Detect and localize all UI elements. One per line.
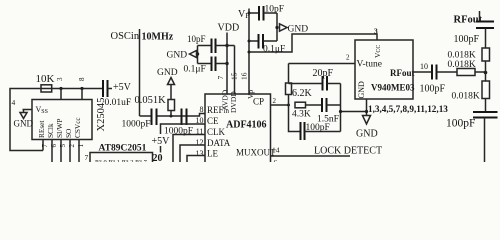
IC X25045 box (32, 100, 92, 140)
svg-text:7: 7 (41, 144, 49, 148)
node left GND tap (196, 52, 199, 55)
IC ADF4106 box (205, 94, 271, 162)
svg-text:SO: SO (64, 129, 73, 138)
svg-text:VDD: VDD (218, 23, 240, 34)
svg-text:6.2K: 6.2K (292, 88, 313, 99)
svg-text:0.01uF: 0.01uF (105, 98, 132, 108)
node CP junction (287, 104, 290, 107)
capacitor 100pF bottom (446, 112, 498, 162)
svg-text:6: 6 (50, 144, 58, 148)
svg-text:6: 6 (274, 158, 278, 162)
svg-text:2: 2 (346, 54, 350, 62)
resistor 6.2K (286, 64, 313, 106)
resistor 0.018K lower (452, 81, 490, 112)
capacitor 100pF loop (289, 105, 341, 140)
wire filter ground rail (341, 84, 367, 132)
wire pin8 stub (81, 89, 83, 100)
wire right GND tap (276, 13, 278, 41)
resistor 4.3K (292, 102, 322, 119)
svg-text:10MHz: 10MHz (142, 32, 174, 43)
svg-text:3: 3 (374, 27, 378, 36)
svg-text:CSVcc: CSVcc (73, 117, 82, 138)
svg-text:3: 3 (56, 77, 64, 81)
node Vp 0.1uF (248, 40, 251, 43)
svg-text:1000pF: 1000pF (122, 120, 151, 130)
svg-text:0.1μF: 0.1μF (263, 45, 285, 55)
svg-text:20: 20 (153, 153, 163, 162)
wire Vp to VCO Vcc (249, 34, 377, 52)
node pin3 X25045 (59, 87, 62, 90)
svg-text:2: 2 (68, 144, 76, 148)
svg-text:CLK: CLK (207, 127, 226, 137)
wire X25045 pin6 stub (51, 140, 53, 163)
wire left GND tap (197, 46, 199, 64)
svg-text:DVDD: DVDD (229, 91, 238, 113)
svg-text:13: 13 (196, 149, 204, 158)
svg-text:MUXOUT: MUXOUT (236, 148, 276, 158)
svg-text:10K: 10K (36, 73, 55, 85)
svg-text:14: 14 (272, 146, 280, 155)
resistor 0.018K series (448, 60, 486, 76)
svg-text:LOCK DETECT: LOCK DETECT (314, 146, 382, 157)
svg-text:2: 2 (273, 97, 277, 105)
svg-text:RFout: RFout (454, 15, 483, 26)
capacitor 10pF right (249, 5, 284, 21)
capacitor 100pF top (454, 11, 495, 48)
svg-text:10pF: 10pF (187, 34, 206, 44)
resistor 0.051K (135, 85, 175, 117)
svg-text:Vp: Vp (246, 90, 255, 99)
ground symbol left pair (167, 51, 197, 61)
wire X25045 pin1 stub (78, 140, 80, 163)
svg-text:8: 8 (200, 105, 204, 114)
wire LE (187, 156, 205, 163)
svg-text:LE: LE (207, 149, 218, 159)
wire DATA (180, 145, 205, 162)
svg-text:0.1μF: 0.1μF (184, 65, 206, 75)
svg-text:RFout: RFout (390, 68, 415, 78)
capacitor 100pF coupling (420, 65, 458, 95)
capacitor 20pF (289, 68, 341, 91)
node right GND tap (275, 26, 278, 29)
wire X25045 pin7 stub (42, 140, 44, 151)
svg-text:X25045: X25045 (96, 98, 107, 132)
wire CE to +5V (161, 124, 206, 134)
node pin8 X25045 (80, 87, 83, 90)
capacitor 1.5nF (317, 98, 341, 125)
svg-text:GND: GND (356, 129, 378, 140)
svg-text:+5V: +5V (113, 82, 132, 93)
wire pin3 stub (60, 89, 62, 100)
svg-text:GND: GND (14, 119, 34, 129)
svg-text:V940ME03: V940ME03 (371, 83, 415, 93)
node filter gnd left (339, 110, 342, 113)
svg-text:20pF: 20pF (313, 68, 334, 79)
IC AT89C2051 (85, 144, 163, 167)
wire V-tune (289, 63, 356, 65)
svg-text:SClk: SClk (46, 123, 55, 138)
svg-text:REset: REset (37, 121, 46, 138)
capacitor 0.01uF (103, 80, 131, 108)
wire X25045 pin2 stub (69, 140, 71, 163)
svg-text:1: 1 (77, 144, 85, 148)
svg-text:4: 4 (12, 98, 16, 107)
wire +5V to AT89C pin20 (160, 146, 162, 153)
wire ADF pin15 stub (234, 46, 236, 95)
svg-text:100pF: 100pF (420, 84, 446, 95)
ground symbol above 0.051K (157, 68, 178, 85)
wire REFin branch (140, 114, 206, 117)
node filter gnd right (365, 110, 368, 113)
ground symbol X25045 Vss (14, 110, 34, 129)
svg-text:5: 5 (59, 144, 67, 148)
svg-text:4.3K: 4.3K (292, 110, 311, 120)
svg-text:VP: VP (238, 9, 249, 20)
capacitor 10pF left (187, 34, 235, 53)
svg-text:100pF: 100pF (454, 34, 480, 45)
wire X25045 pin5 stub (60, 140, 62, 163)
node VDD 10pF (225, 44, 228, 47)
IC VCO V940ME03 box (355, 40, 413, 99)
node 0.051K junction (170, 115, 173, 118)
resistor 0.018K upper (448, 48, 490, 81)
capacitor 1000pF first (122, 109, 157, 130)
node VDD 0.1uF (225, 62, 228, 65)
svg-text:V-tune: V-tune (357, 60, 383, 70)
svg-text:100pF: 100pF (446, 118, 475, 130)
svg-text:ADF4106: ADF4106 (226, 120, 267, 131)
capacitor 1000pF second (164, 109, 193, 137)
wire OSCin vertical (139, 29, 141, 116)
svg-text:8: 8 (78, 77, 86, 81)
svg-text:0.018K: 0.018K (452, 92, 480, 102)
wire VDD rail to pin7 (226, 33, 228, 95)
svg-text:CE: CE (207, 116, 219, 126)
wire CLK (173, 135, 205, 163)
svg-text:7: 7 (85, 153, 89, 162)
svg-text:OSCin: OSCin (111, 31, 140, 42)
svg-text:0.018K: 0.018K (448, 51, 476, 61)
node Vp VCO feed (248, 51, 251, 54)
wire Vss pin4 (23, 109, 33, 111)
svg-text:1,3,4,5,7,8,9,11,12,13: 1,3,4,5,7,8,9,11,12,13 (368, 104, 448, 114)
svg-text:10pF: 10pF (265, 5, 285, 15)
svg-text:GND: GND (288, 25, 309, 35)
node Vp 10pF (248, 12, 251, 15)
svg-text:GND: GND (167, 51, 188, 61)
svg-text:SI/WP: SI/WP (55, 119, 64, 138)
svg-text:10: 10 (420, 62, 428, 71)
capacitor 0.1uF right (249, 34, 285, 55)
svg-text:100pF: 100pF (306, 123, 330, 133)
capacitor 0.1uF left (184, 57, 228, 75)
svg-text:P3.0 P3.1 P3.2 P3.7: P3.0 P3.1 P3.2 P3.7 (95, 159, 148, 162)
svg-text:DATA: DATA (207, 138, 231, 148)
svg-text:GND: GND (357, 81, 366, 99)
wire 10K pullup net (10, 89, 102, 151)
svg-text:GND: GND (157, 68, 178, 78)
svg-text:0.018K: 0.018K (448, 60, 476, 70)
svg-text:0.051K: 0.051K (135, 95, 167, 106)
svg-text:16: 16 (240, 72, 249, 80)
svg-text:+5V: +5V (152, 136, 171, 147)
ground symbol loop filter (356, 116, 378, 140)
ground symbol right pair (280, 24, 309, 35)
wire Vp rail (248, 9, 250, 95)
node output rail (484, 71, 488, 75)
svg-text:7: 7 (216, 76, 225, 80)
wire RFout pin10 (413, 71, 432, 73)
wire MUXOUT (271, 155, 351, 157)
resistor 10K (36, 73, 55, 92)
wire CP (271, 104, 289, 106)
